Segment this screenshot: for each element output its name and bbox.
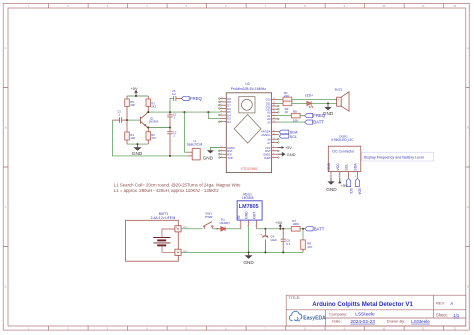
- svg-text:B: B: [467, 126, 469, 130]
- +5V supply flag: [135, 92, 137, 96]
- svg-text:GND: GND: [243, 260, 254, 265]
- wire diode to regulator: [225, 228, 241, 230]
- resistor R1: [283, 97, 292, 102]
- node +5V junction: [135, 95, 137, 97]
- pin RXI: [220, 153, 232, 157]
- RIGHT: [278, 87, 349, 156]
- svg-text:SDA: SDA: [353, 163, 357, 171]
- wire battery plus: [181, 228, 202, 230]
- svg-text:GND: GND: [287, 152, 296, 157]
- svg-text:BUZ1: BUZ1: [335, 87, 343, 91]
- svg-text:FREQ: FREQ: [313, 113, 326, 118]
- svg-text:I2C Connector: I2C Connector: [332, 150, 355, 154]
- svg-text:100K: 100K: [292, 222, 299, 226]
- svg-text:0.1: 0.1: [286, 242, 291, 246]
- resistor R4: [125, 132, 130, 140]
- wire R1 to buzzer: [292, 98, 337, 100]
- svg-text:RST: RST: [265, 149, 271, 153]
- wire A3 to BATT: [278, 121, 305, 123]
- pin D8: [220, 100, 231, 104]
- capacitor C6: [174, 96, 182, 101]
- svg-text:1N4007: 1N4007: [219, 221, 230, 225]
- wire A1 to R9: [278, 115, 292, 117]
- svg-text:+5V: +5V: [275, 220, 283, 225]
- svg-text:Display Frequency and Battery: Display Frequency and Battery Level: [364, 155, 424, 159]
- wire bottom bias rail: [127, 143, 148, 145]
- svg-text:2-AA 3.2v LiFE04: 2-AA 3.2v LiFE04: [151, 216, 176, 220]
- +5V disp: [339, 178, 341, 184]
- pin A1: [267, 114, 277, 118]
- unconnected pin end markers: [219, 98, 280, 158]
- svg-text:GND: GND: [327, 162, 331, 170]
- border column ticks bottom: [49, 326, 444, 330]
- svg-text:EasyEDA: EasyEDA: [303, 315, 326, 321]
- svg-text:FREQ: FREQ: [190, 96, 203, 101]
- node C2 bottom junction: [169, 155, 171, 157]
- svg-text:L1 = approx. 280uH - 420uH, ap: L1 = approx. 280uH - 420uH, approx 110Kh…: [114, 188, 219, 193]
- svg-text:+5V: +5V: [130, 86, 138, 91]
- capacitor C4: [262, 229, 268, 253]
- svg-text:A3: A3: [267, 120, 271, 124]
- title block outline: [286, 295, 466, 326]
- pin A2: [267, 117, 277, 121]
- node C4 top: [264, 228, 266, 230]
- svg-text:OUT: OUT: [253, 212, 257, 219]
- border row ticks right: [466, 88, 470, 247]
- svg-text:A7: A7: [267, 141, 271, 145]
- node R8 top: [302, 228, 304, 230]
- svg-text:SDA: SDA: [358, 188, 362, 195]
- svg-text:REV:: REV:: [436, 301, 445, 306]
- wire out rail: [257, 228, 292, 230]
- svg-text:2K2: 2K2: [151, 105, 156, 109]
- node C1 emitter junction: [169, 127, 171, 129]
- wire R4 bottom: [126, 140, 128, 144]
- pin D4: [220, 113, 231, 117]
- svg-text:ProMini328-5V-16MHz: ProMini328-5V-16MHz: [231, 87, 266, 91]
- border row letters: [5, 46, 469, 289]
- svg-text:LED+: LED+: [305, 94, 313, 98]
- pin SDA disp: [353, 163, 357, 178]
- +5V rail flag: [279, 226, 281, 229]
- svg-text:IN: IN: [237, 215, 241, 219]
- pin A4/SDA: [261, 130, 278, 134]
- pin A0: [267, 111, 277, 115]
- wire emitter: [147, 126, 170, 129]
- pin IN: [237, 215, 241, 229]
- svg-text:VCC: VCC: [336, 163, 340, 171]
- pin GND reg: [245, 211, 249, 228]
- pin D5: [220, 110, 231, 114]
- svg-text:LSSteele: LSSteele: [411, 319, 430, 324]
- net flag SDA disp: [355, 178, 359, 186]
- decoration circle: [242, 99, 253, 110]
- title block labels: [288, 295, 447, 324]
- pin D6: [220, 107, 231, 111]
- net flag BATT input: [305, 120, 313, 124]
- svg-text:SCL: SCL: [290, 134, 298, 139]
- pin OUT: [253, 212, 257, 229]
- node reg gnd rail: [248, 251, 250, 253]
- svg-text:BT1+: BT1+: [183, 227, 189, 229]
- OSC: [113, 86, 242, 193]
- net flag SCL disp: [347, 178, 351, 186]
- border column ticks top: [49, 4, 444, 9]
- battery + terminal: [175, 226, 181, 232]
- border row ticks left: [3, 88, 8, 247]
- wire R3 top: [147, 96, 149, 99]
- capacitor C5: [281, 229, 286, 253]
- svg-text:A: A: [467, 46, 469, 50]
- node base divider junction: [126, 119, 128, 121]
- svg-text:SCL: SCL: [349, 188, 353, 194]
- wire R6 bottom: [147, 140, 149, 144]
- svg-text:SearchCoil: SearchCoil: [187, 142, 203, 146]
- wire collector: [147, 112, 220, 113]
- resistor R5: [125, 99, 130, 107]
- svg-text:0.96OLED_I2C: 0.96OLED_I2C: [331, 138, 354, 142]
- net flag FREQ output: [181, 96, 189, 100]
- svg-text:C: C: [5, 205, 7, 209]
- wire LED to buzzer: [311, 102, 337, 104]
- pin D9: [220, 97, 231, 101]
- resistor R6: [146, 132, 151, 140]
- wire top rail: [127, 95, 148, 97]
- wire C6 riser: [170, 98, 173, 112]
- battery cells: [153, 238, 170, 246]
- pin D3: [220, 117, 231, 121]
- wire switch to diode: [213, 228, 217, 230]
- svg-text:LSSteele: LSSteele: [355, 312, 375, 318]
- svg-text:Date:: Date:: [332, 319, 342, 324]
- svg-text:A5/SCL: A5/SCL: [261, 133, 271, 137]
- svg-text:2N3904: 2N3904: [149, 120, 159, 124]
- svg-text:1/1: 1/1: [453, 313, 459, 318]
- svg-text:R9: R9: [293, 110, 297, 114]
- wire D11 to R2: [278, 102, 283, 104]
- net flag SDA: [278, 130, 280, 132]
- svg-text:Sheet:: Sheet:: [436, 313, 448, 318]
- pin D12: [266, 104, 278, 108]
- svg-text:D: D: [467, 285, 469, 289]
- svg-text:RAW: RAW: [264, 156, 271, 160]
- node +5V rail: [279, 228, 281, 230]
- pin D11: [266, 102, 278, 106]
- pin D13: [266, 108, 278, 112]
- wire R9 to FREQ: [300, 115, 305, 117]
- battery - terminal: [175, 249, 181, 255]
- wire R3 bottom: [147, 107, 149, 113]
- net flag BATT divider: [305, 227, 313, 231]
- svg-text:1K: 1K: [285, 110, 289, 114]
- svg-text:BATT: BATT: [314, 226, 325, 231]
- ground bias: [137, 144, 139, 147]
- pin D10: [266, 98, 278, 102]
- svg-text:BATT: BATT: [313, 120, 324, 125]
- ground LED: [327, 103, 329, 107]
- pin TXD: [220, 156, 233, 160]
- svg-text:33K: 33K: [130, 103, 135, 107]
- node C5 top: [282, 228, 284, 230]
- svg-text:LM7805: LM7805: [239, 204, 259, 210]
- wire D10 to R1: [278, 98, 283, 100]
- DISP: [326, 135, 434, 196]
- svg-text:+5V: +5V: [285, 146, 292, 150]
- pin A3: [267, 120, 277, 124]
- wire GND2 to ground: [210, 148, 220, 151]
- resistor R2: [283, 101, 292, 106]
- pin RAW: [264, 156, 277, 160]
- svg-text:D10: D10: [266, 98, 271, 102]
- pin RST right: [265, 149, 277, 153]
- node L1 tap junction: [183, 111, 185, 113]
- node C1 collector junction: [169, 111, 171, 113]
- svg-text:10uF: 10uF: [270, 238, 277, 242]
- svg-text:2024-02-23: 2024-02-23: [350, 319, 375, 325]
- svg-text:TXD: TXD: [227, 156, 232, 160]
- svg-text:SCL: SCL: [345, 164, 349, 171]
- net flag SCL: [278, 134, 280, 136]
- svg-text:PWR: PWR: [205, 215, 213, 219]
- EasyEDA logo cloud: [289, 311, 301, 321]
- svg-text:GND: GND: [203, 156, 214, 161]
- svg-text:TITLE:: TITLE:: [288, 295, 300, 300]
- capacitor C2: [167, 128, 172, 156]
- wire R8 bottom: [302, 249, 304, 252]
- pin D2: [220, 120, 231, 124]
- pin VCC: [265, 146, 278, 150]
- svg-text:470: 470: [151, 136, 156, 140]
- svg-text:GND: GND: [132, 151, 143, 156]
- annotation display box: [362, 152, 434, 161]
- decoration square: [239, 97, 255, 113]
- resistor R9: [291, 113, 300, 118]
- pin SCL disp: [345, 164, 349, 178]
- ground GND2: [207, 150, 214, 153]
- svg-text:1uf: 1uf: [172, 92, 176, 96]
- svg-text:+5V: +5V: [341, 183, 348, 188]
- svg-text:A: A: [5, 46, 7, 50]
- svg-text:+: +: [260, 233, 262, 237]
- svg-text:220: 220: [284, 94, 289, 98]
- wire battery minus rail: [181, 251, 303, 253]
- node collector R3: [147, 111, 149, 113]
- svg-text:LM7805: LM7805: [242, 196, 254, 200]
- pin A5/SCL: [261, 133, 277, 137]
- ground main: [248, 252, 250, 255]
- pin A6: [267, 138, 277, 142]
- pin VCC disp: [336, 163, 340, 178]
- svg-text:FTDI PINS: FTDI PINS: [241, 167, 258, 171]
- transistor Q1: [140, 113, 147, 127]
- +5V at VCC: [278, 147, 282, 149]
- ground at GND1: [278, 153, 282, 155]
- wire D3 branch: [208, 112, 220, 118]
- resistor R3: [146, 99, 151, 107]
- wire R2 to LED: [292, 102, 307, 104]
- wire R7 to BATT flag: [300, 228, 305, 230]
- wire R6 top: [147, 128, 149, 132]
- svg-text:RST: RST: [227, 149, 233, 153]
- pin GND disp: [327, 162, 331, 178]
- wire base: [127, 119, 140, 121]
- capacitor C3: [113, 117, 128, 123]
- svg-text:U3: U3: [245, 82, 249, 86]
- node C5 bottom: [282, 251, 284, 253]
- svg-text:B: B: [5, 126, 7, 130]
- capacitor C1: [167, 112, 172, 127]
- node emitter R6: [147, 127, 149, 129]
- wire C3 left drop: [113, 120, 188, 156]
- svg-text:BT1-: BT1-: [183, 251, 188, 253]
- svg-text:C: C: [467, 205, 469, 209]
- pin GND2: [220, 146, 235, 150]
- POWER: [126, 193, 325, 265]
- svg-text:10K: 10K: [130, 136, 135, 140]
- resistor R7: [291, 227, 300, 232]
- node C4 bottom: [264, 251, 266, 253]
- svg-text:Drawn By:: Drawn By:: [387, 319, 405, 324]
- svg-text:D2: D2: [227, 120, 231, 124]
- node D5 branch junction: [207, 111, 209, 113]
- pin D7: [220, 104, 231, 108]
- svg-text:GND: GND: [245, 211, 249, 219]
- svg-text:D: D: [5, 285, 7, 289]
- svg-text:47K: 47K: [307, 245, 312, 249]
- resistor R8: [302, 229, 304, 240]
- decoration diamond: [234, 115, 261, 144]
- wire L1 top: [184, 112, 189, 152]
- node LED GND junction: [327, 102, 329, 104]
- wire reg GND down: [248, 226, 250, 252]
- pin A7: [267, 141, 277, 145]
- svg-text:Company:: Company:: [329, 311, 347, 316]
- IC U3 ProMini328: [226, 93, 271, 173]
- node bias GND junction: [137, 143, 139, 145]
- pin RST left: [220, 149, 233, 153]
- svg-text:L1 Search Coil= 20cm round, @2: L1 Search Coil= 20cm round, @20-25Turns …: [114, 182, 241, 187]
- wire R4 top: [126, 120, 128, 132]
- inductor L1 searchcoil: [188, 152, 192, 156]
- TITLEBLOCK: [286, 295, 466, 326]
- ground disp: [330, 178, 332, 182]
- wire R5 bottom: [126, 107, 128, 121]
- svg-text:GND: GND: [326, 187, 337, 192]
- net flag FREQ input: [305, 114, 313, 118]
- wire R5 top: [126, 96, 128, 99]
- svg-text:A: A: [450, 301, 453, 306]
- pin GND1: [263, 153, 278, 157]
- svg-text:Arduino Colpitts Metal Detecto: Arduino Colpitts Metal Detector V1: [312, 301, 413, 308]
- IC: [203, 82, 280, 173]
